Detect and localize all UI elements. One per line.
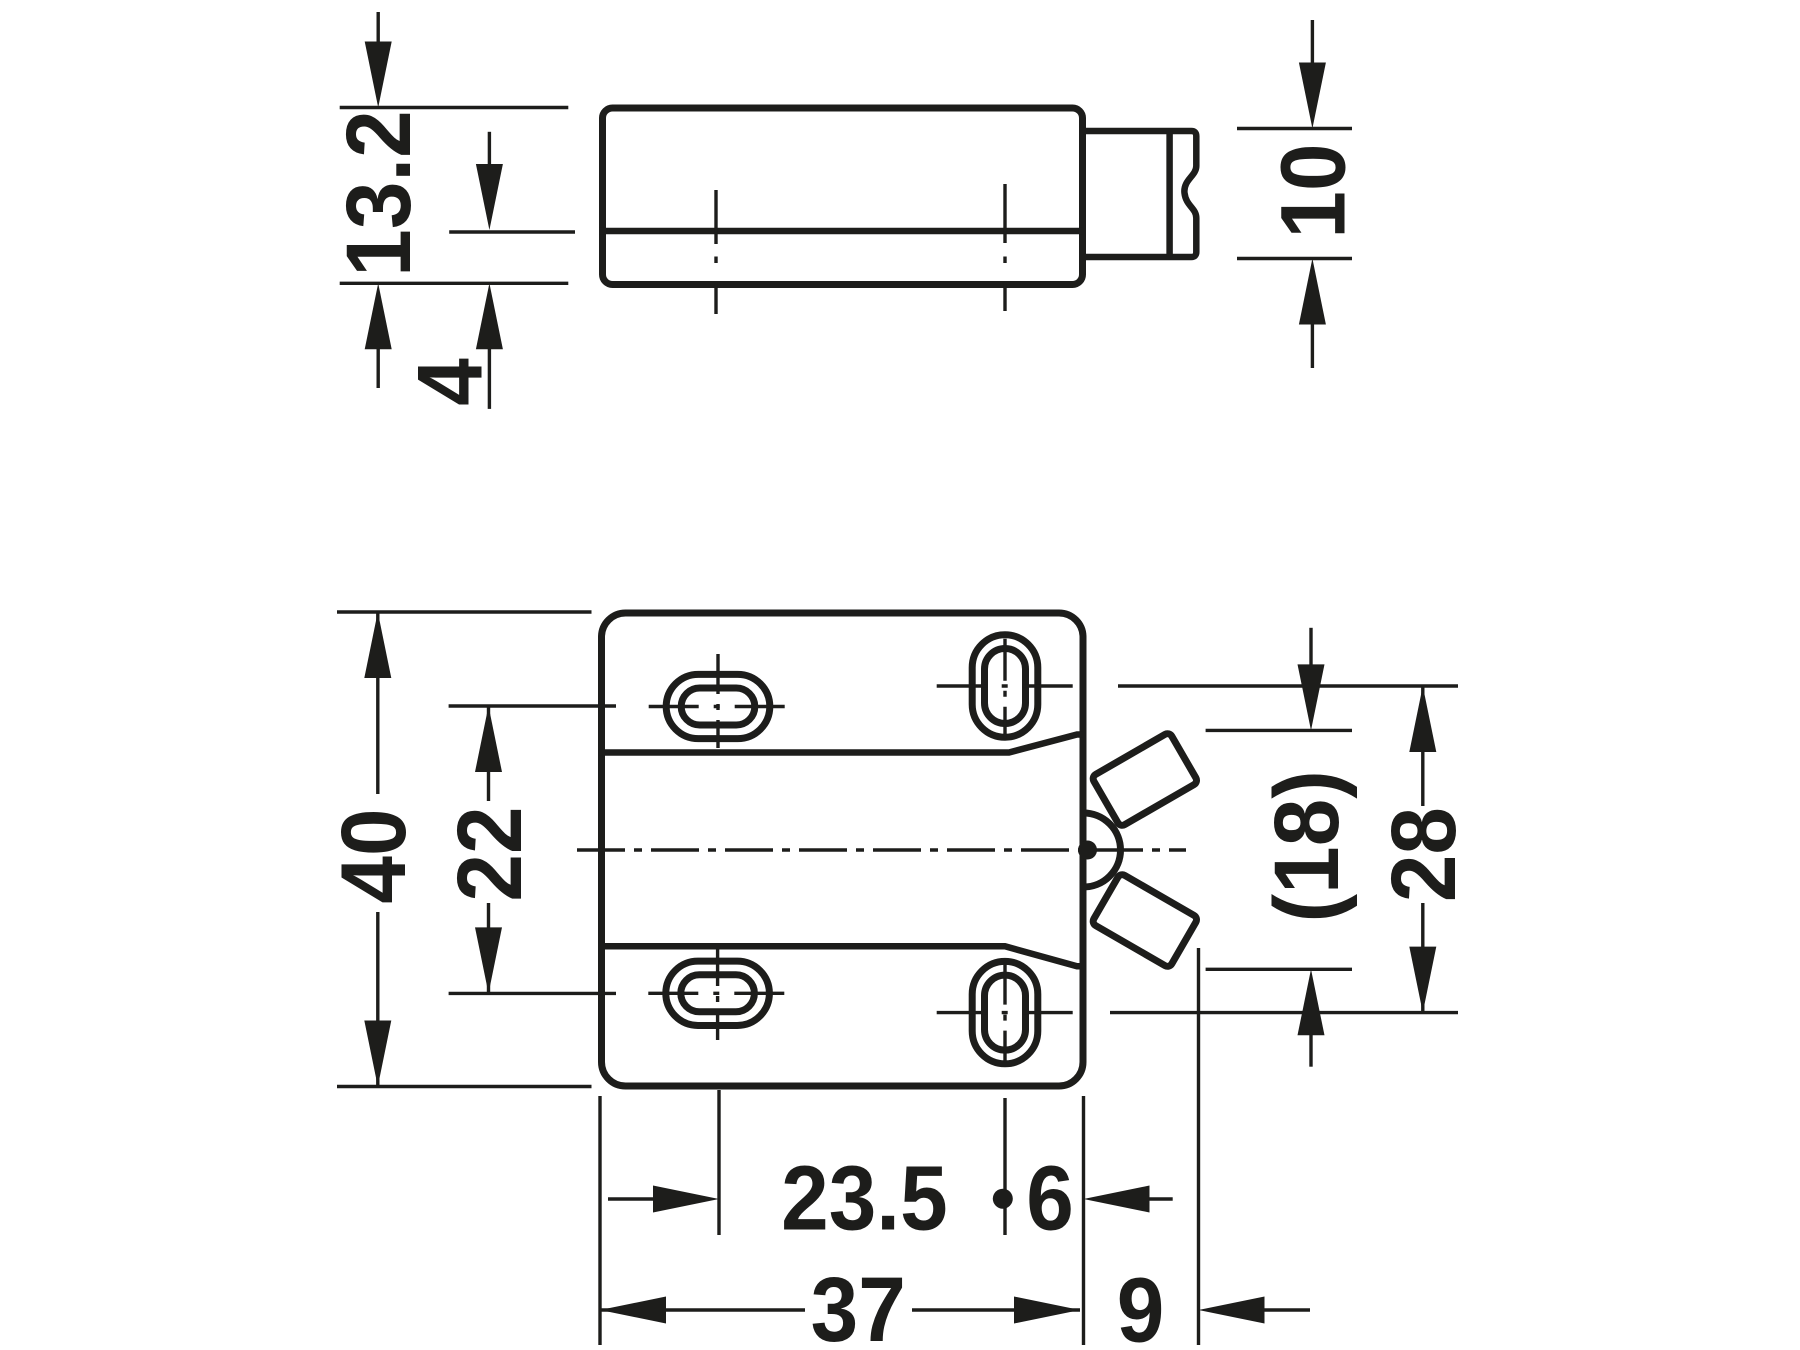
actuator bump arc — [1084, 813, 1121, 887]
front view neck bottom line — [599, 946, 1084, 966]
svg-text:28: 28 — [1372, 807, 1475, 902]
dim 18 bottom arrow — [1298, 969, 1325, 1035]
svg-text:40: 40 — [322, 808, 425, 903]
svg-text:13.2: 13.2 — [327, 110, 430, 277]
svg-text:10: 10 — [1262, 143, 1365, 238]
dim 10 ext top — [1237, 127, 1352, 130]
dim 22 ext top — [449, 704, 616, 707]
top view inner line — [599, 228, 1083, 235]
dim 10 bottom arrow — [1299, 259, 1326, 325]
actuator center dot — [1078, 841, 1097, 860]
svg-text:22: 22 — [438, 806, 541, 901]
slot bottom-left cross h — [648, 992, 787, 995]
slot top-right inner — [985, 649, 1026, 724]
svg-text:4: 4 — [399, 358, 502, 406]
ext line body right — [1082, 1096, 1085, 1345]
dim 4 upper arrow — [488, 132, 491, 168]
ext line slot left center — [717, 1090, 720, 1235]
dim 6 dot — [993, 1189, 1013, 1209]
slot top-left cross v — [716, 654, 719, 748]
slot top-right cross h — [937, 684, 1074, 687]
dim 13.2 ext top — [340, 106, 569, 109]
slot bottom-right outer — [972, 961, 1038, 1063]
dim 13.2 ext bottom — [340, 282, 569, 285]
slot bottom-left outer — [666, 961, 770, 1025]
dim 40 ext top — [337, 610, 592, 613]
slot bottom-left inner — [681, 975, 755, 1012]
dim 4 ext line — [449, 230, 575, 233]
upper wing — [1091, 732, 1198, 827]
front view neck top line — [599, 735, 1084, 753]
dim 10 ext bottom — [1237, 257, 1352, 260]
svg-text:(18): (18) — [1255, 770, 1358, 922]
ext line body left — [598, 1096, 601, 1345]
dim 37 arrows — [600, 1297, 666, 1324]
slot top-right cross v — [1003, 639, 1006, 739]
dim 18 ext top — [1206, 729, 1352, 732]
dim 23.5 arrow — [608, 1197, 653, 1200]
dim 40 line — [376, 612, 379, 1087]
dim 18 top arrow — [1309, 628, 1312, 666]
dim 9 arrow — [1199, 1297, 1265, 1324]
dim 13.2 top arrow — [377, 12, 380, 46]
plunger inner line — [1166, 131, 1173, 257]
dim 22 line — [487, 706, 490, 993]
slot bottom-right cross v — [1003, 963, 1006, 1063]
wing tip ext line — [1197, 948, 1200, 1345]
slot top-left inner — [681, 688, 755, 725]
ext line slot right center — [1003, 1098, 1006, 1235]
ext line right slot bottom — [1110, 1011, 1458, 1014]
slot top-right outer — [972, 635, 1038, 737]
svg-text:23.5: 23.5 — [781, 1147, 948, 1250]
ext line right slot top — [1118, 684, 1458, 687]
dim 22 ext bottom — [449, 992, 616, 995]
svg-text:9: 9 — [1117, 1258, 1165, 1350]
plunger outline with break — [1083, 131, 1196, 257]
dim 40 arrows — [364, 612, 391, 678]
lower wing — [1091, 873, 1198, 968]
dim 28 line — [1421, 686, 1424, 1013]
slot bottom-right inner — [985, 975, 1026, 1050]
dim 10 top arrow — [1311, 20, 1314, 64]
dim 22 arrows — [475, 706, 502, 772]
top view body — [603, 108, 1083, 285]
svg-text:6: 6 — [1026, 1147, 1074, 1250]
dim 40 ext bottom — [337, 1085, 592, 1088]
dim 37 line — [600, 1308, 1080, 1311]
svg-text:37: 37 — [811, 1258, 906, 1350]
slot bottom-right cross h — [937, 1011, 1074, 1014]
top view centerline right — [1003, 184, 1006, 311]
slot top-left cross h — [649, 705, 788, 708]
dim 6 arrow — [1084, 1186, 1150, 1213]
front view main centerline — [577, 848, 1186, 851]
dim 4 lower arrow — [476, 283, 503, 349]
slot top-left outer — [666, 674, 770, 738]
top view centerline left — [714, 190, 717, 314]
dim 18 ext bottom — [1206, 968, 1352, 971]
dim 28 arrows — [1409, 686, 1436, 752]
slot bottom-left cross v — [716, 946, 719, 1040]
front view body — [602, 613, 1084, 1086]
dim 13.2 bottom arrow — [365, 283, 392, 349]
